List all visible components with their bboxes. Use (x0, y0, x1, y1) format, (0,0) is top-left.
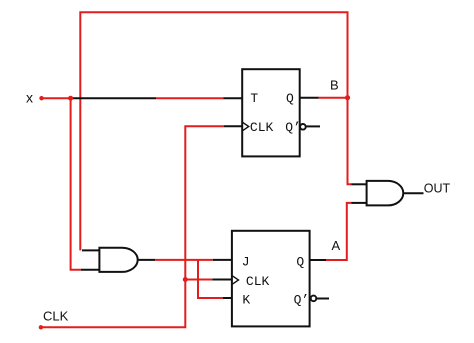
node B junction dot (345, 95, 350, 100)
svg-text:CLK: CLK (43, 309, 69, 324)
svg-text:T: T (250, 91, 258, 106)
JK flip-flop U2 body (232, 231, 310, 327)
svg-text:K: K (242, 292, 250, 307)
wire: x line red middle segment (156, 97, 224, 99)
node: input terminal dot x (39, 96, 43, 100)
svg-text:CLK: CLK (246, 274, 270, 289)
T flip-flop U1 body (242, 69, 300, 156)
T flip-flop U1 Q' bubble (300, 124, 306, 130)
wire: JK Q output black segment (310, 259, 326, 261)
JK flip-flop U2 clock triangle (233, 276, 239, 284)
T flip-flop U1 clock triangle (243, 122, 249, 130)
AND gate G2 (367, 181, 404, 206)
wire: x line black segment into T input (224, 97, 243, 99)
wire: AND G2 lower input stub (352, 202, 367, 204)
svg-text:Q: Q (286, 91, 294, 106)
wire: x line black segment 1 (71, 97, 156, 99)
wire: CLK branch to JK clock red segment (185, 279, 212, 281)
wire: input x terminal to junction (42, 97, 71, 99)
JK flip-flop U2 Q' bubble (311, 296, 317, 302)
wire: JK clock input stub (212, 279, 232, 281)
wire: T-FF Q' stub (306, 125, 321, 127)
wire: branch down to K input (198, 260, 223, 298)
wire: T-FF Q output red segment to node B (319, 97, 348, 99)
wire: net B feedback loop (top) to AND G2 upper input (80, 12, 351, 250)
wire: AND G1 output black segment (137, 259, 156, 261)
wire: AND G1 bottom input stub (81, 269, 100, 271)
svg-text:A: A (332, 238, 341, 253)
wire: T-FF clock input stub (224, 125, 242, 127)
AND gate G1 (99, 248, 137, 272)
wire: JK Q' stub (317, 298, 330, 300)
wire: net A up to AND G2 lower input (326, 203, 352, 260)
node: CLK branch junction dot (183, 277, 188, 282)
wire: AND G1 output red segment to J (155, 259, 213, 261)
wire: AND G2 upper input stub (352, 183, 367, 185)
node: input terminal dot CLK (39, 325, 43, 329)
wire: OUT line (403, 192, 423, 194)
svg-text:B: B (330, 78, 339, 93)
wire: CLK run from terminal up to T-FF clock (41, 126, 224, 327)
svg-text:CLK: CLK (250, 120, 274, 135)
node: junction dot on x line (68, 96, 73, 101)
svg-text:J: J (242, 254, 250, 269)
wire: J input stub (213, 259, 232, 261)
wire: T-FF Q output black segment (300, 97, 319, 99)
svg-text:OUT: OUT (424, 182, 451, 196)
svg-text:Q’: Q’ (285, 120, 301, 135)
svg-text:Q’: Q’ (294, 292, 310, 307)
wire: K input stub (223, 297, 232, 299)
wire: AND G1 top input stub (82, 249, 99, 251)
svg-text:x: x (26, 90, 33, 106)
wire: x branch down to AND G1 lower input (71, 98, 81, 270)
svg-text:Q: Q (296, 254, 304, 269)
